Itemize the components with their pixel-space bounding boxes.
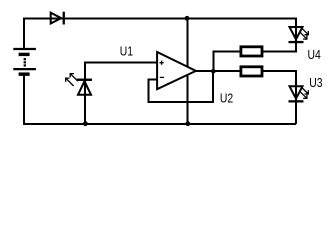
- photodiode D2: [66, 74, 92, 95]
- junction dot output node: [211, 69, 216, 74]
- wire: photodiode vertical branch: [84, 62, 86, 124]
- wire: non-inverting input from photodiode node: [84, 62, 157, 64]
- wire: op-amp V- pin to bottom rail: [187, 73, 189, 124]
- diode D1: [51, 12, 64, 25]
- wire: battery positive to top rail, across to LED U4 anode: [24, 19, 296, 49]
- LED U3: [289, 86, 309, 101]
- wire: LED U4 cathode down and left to resistor R1: [262, 42, 296, 51]
- junction dot photodiode / bottom rail: [83, 121, 88, 126]
- junction dot top rail / V+: [185, 16, 190, 21]
- wire: inverting input feedback loop to output node: [149, 71, 213, 102]
- svg-text:U1: U1: [120, 44, 133, 58]
- wire: resistor R1 left lead down to output node: [213, 51, 241, 70]
- resistor R2: [241, 67, 262, 76]
- svg-text:U4: U4: [307, 48, 321, 62]
- wire: op-amp V+ pin to top rail: [187, 18, 189, 70]
- wire: battery negative down to bottom rail: [24, 75, 296, 124]
- battery B1: [13, 49, 36, 74]
- resistor R1: [241, 47, 262, 56]
- wire: op-amp output to resistor R2: [195, 70, 241, 72]
- svg-text:U3: U3: [309, 76, 323, 90]
- svg-text:U2: U2: [220, 92, 233, 106]
- wire: resistor R2 right lead to LED U3 anode: [262, 71, 296, 124]
- LED U4: [289, 27, 309, 42]
- op-amp U1: [157, 52, 196, 89]
- junction dot V- / bottom rail: [185, 121, 190, 126]
